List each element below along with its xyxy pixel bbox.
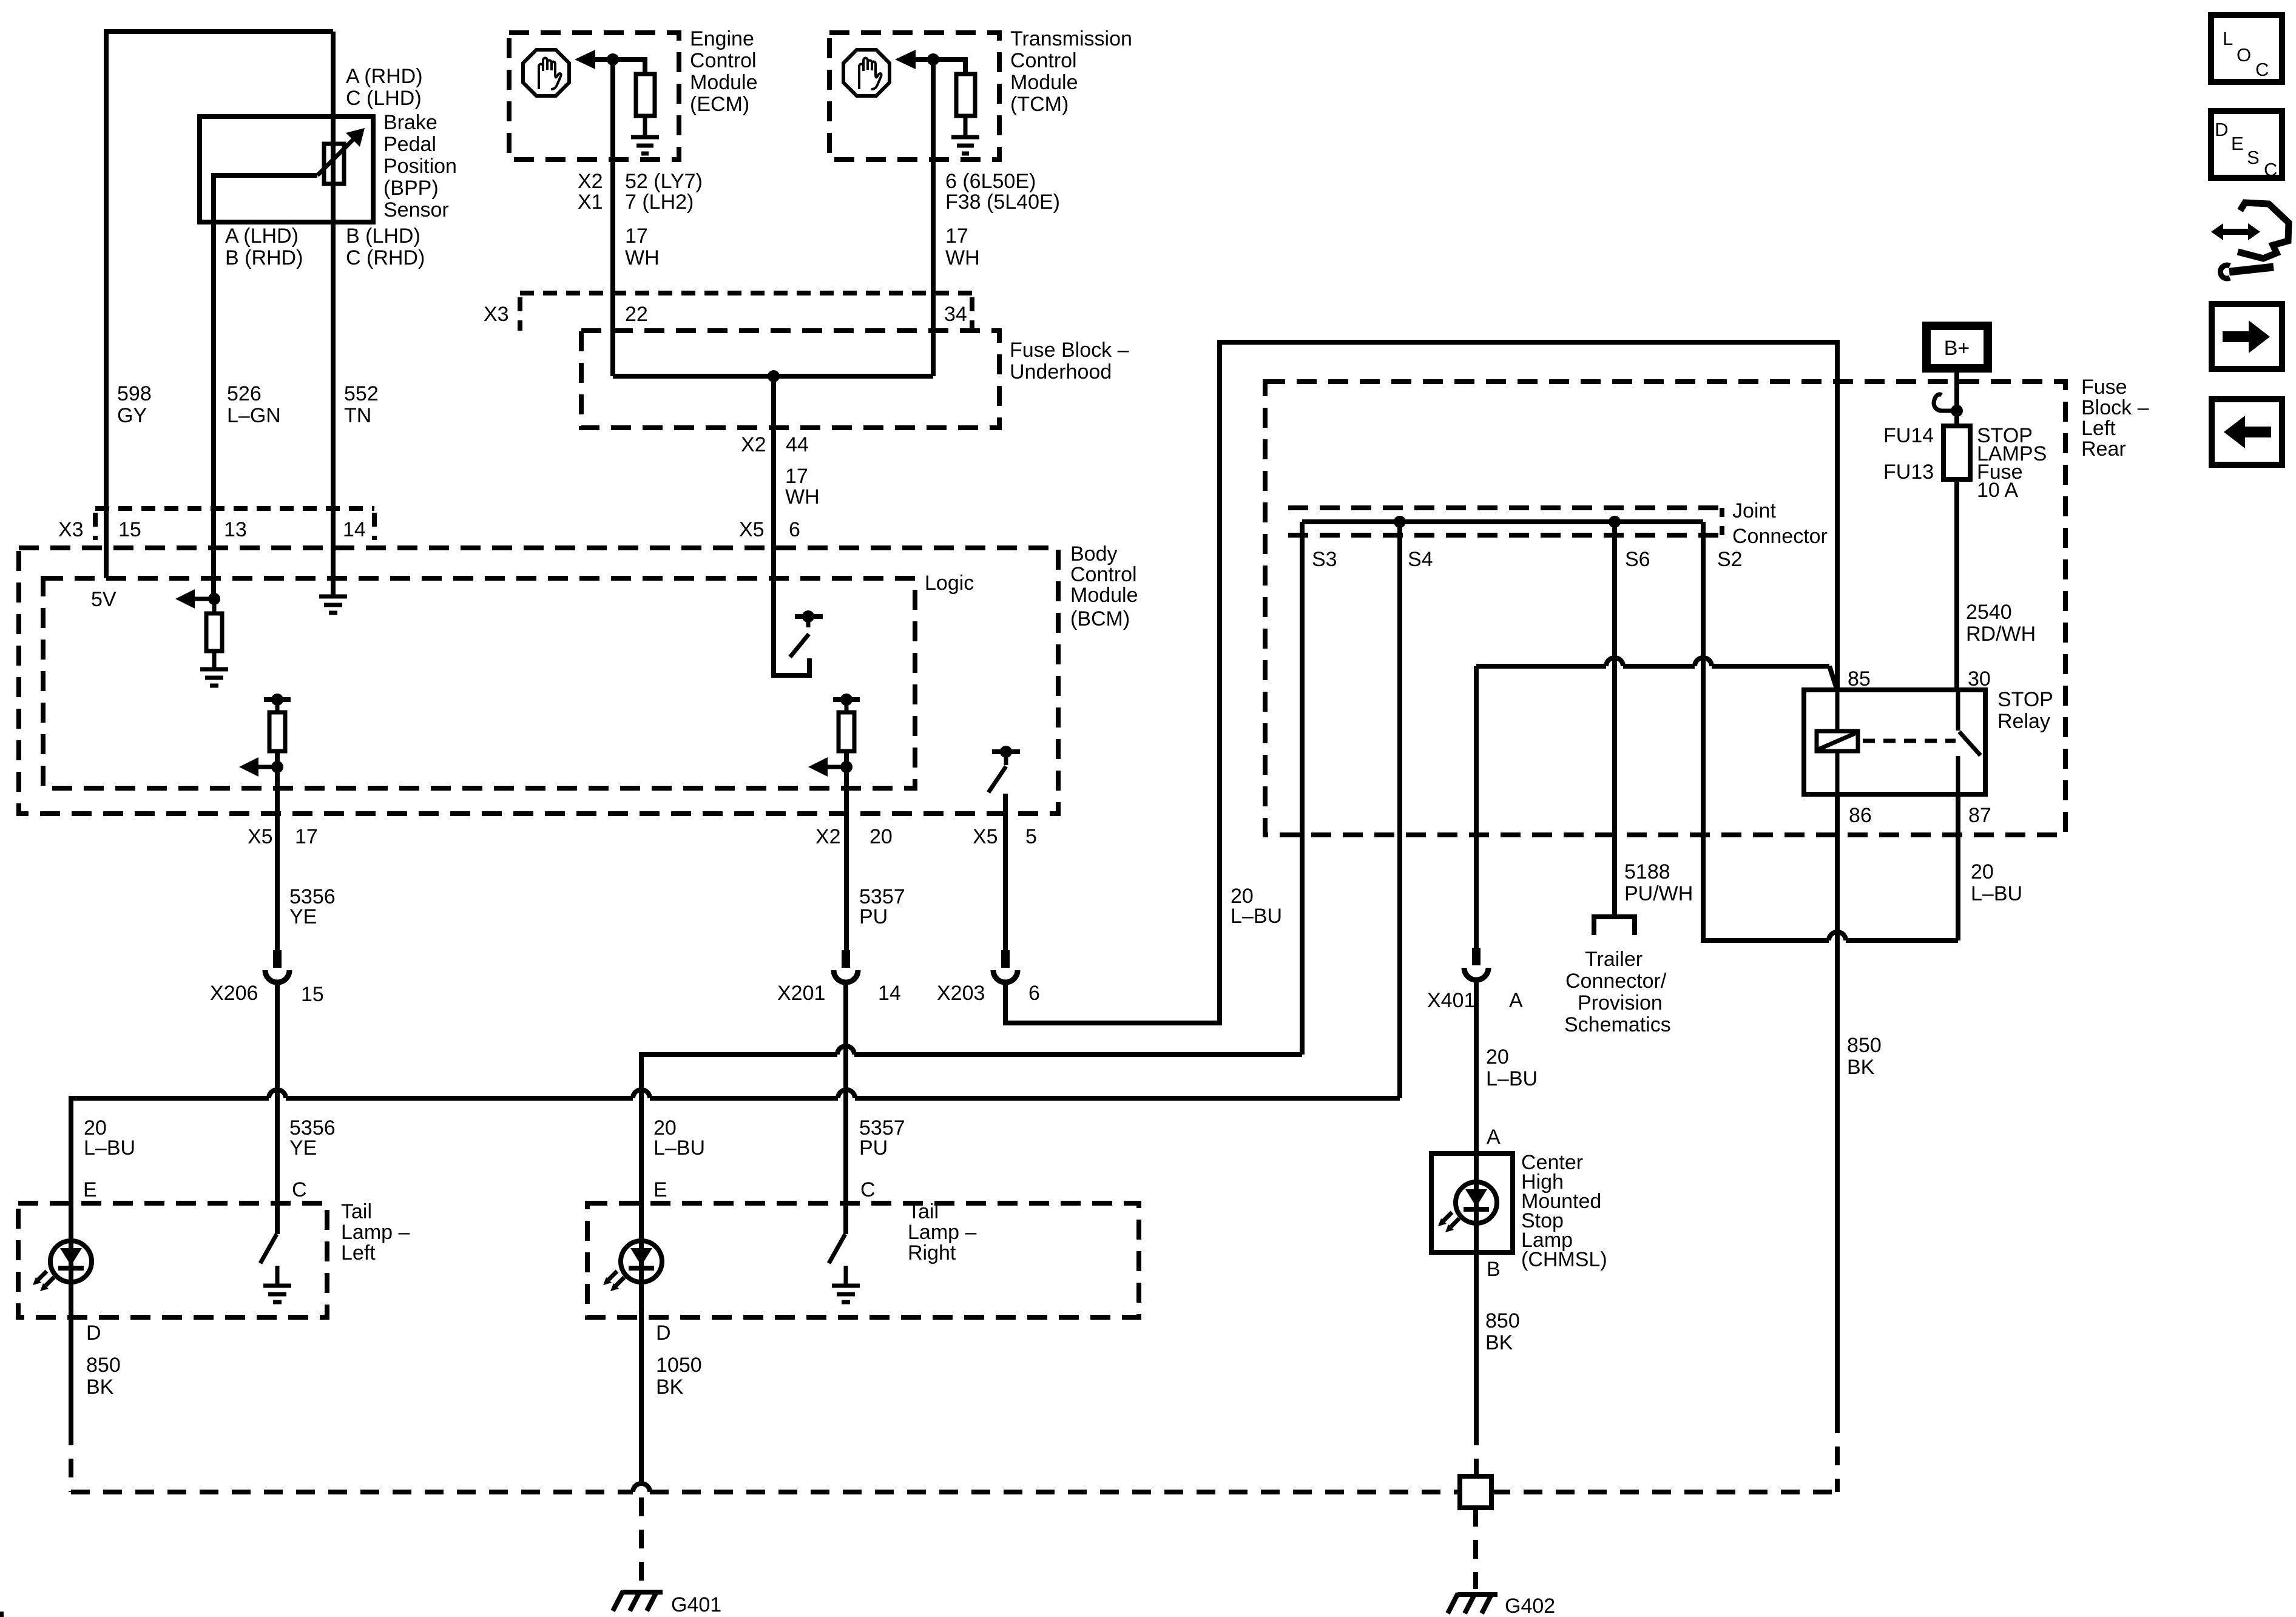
svg-text:FU14: FU14 xyxy=(1883,424,1934,447)
svg-text:Relay: Relay xyxy=(1997,710,2050,733)
fuse STOP LAMPS 10A xyxy=(1943,426,1970,479)
wire left lamp driver output xyxy=(275,751,280,954)
node left driver arrow xyxy=(271,761,283,773)
svg-text:7 (LH2): 7 (LH2) xyxy=(625,191,694,214)
resistor right lamp driver xyxy=(839,712,854,751)
wire fuse to relay 30 xyxy=(1954,479,1959,690)
svg-text:552: 552 xyxy=(344,382,379,405)
wire BPP 5V feed loop xyxy=(106,32,333,578)
svg-text:C (RHD): C (RHD) xyxy=(346,246,425,269)
splice square xyxy=(1460,1476,1491,1508)
svg-text:C: C xyxy=(292,1178,307,1201)
wire joining ECM and TCM outputs xyxy=(613,374,933,379)
ground G401 xyxy=(623,1590,663,1595)
engine control module box xyxy=(509,33,679,160)
svg-text:Left: Left xyxy=(2081,417,2116,440)
logic inner box xyxy=(43,578,915,788)
svg-text:A: A xyxy=(1509,989,1523,1012)
svg-text:52 (LY7): 52 (LY7) xyxy=(625,170,703,193)
svg-text:Provision: Provision xyxy=(1578,991,1663,1014)
svg-text:L–BU: L–BU xyxy=(1971,882,2022,905)
node underhood junction xyxy=(768,370,780,382)
arrow to hand ECM xyxy=(575,50,595,69)
switch BCM relay driver X5-5 xyxy=(992,749,1020,754)
svg-text:87: 87 xyxy=(1968,804,1991,827)
connector X3 underhood band xyxy=(520,291,972,295)
svg-text:D: D xyxy=(86,1322,101,1345)
icon DESC box xyxy=(2211,111,2282,178)
wire TCM output xyxy=(931,59,936,376)
relay internal dashed link xyxy=(1863,739,1956,743)
svg-text:Position: Position xyxy=(383,155,457,178)
svg-text:Underhood: Underhood xyxy=(1010,360,1112,383)
driver output left lamp: T-bar xyxy=(264,697,291,702)
switch BCM brake input xyxy=(795,614,823,619)
svg-text:S4: S4 xyxy=(1408,548,1433,571)
relay coil xyxy=(1835,690,1840,731)
svg-text:X206: X206 xyxy=(210,982,258,1005)
svg-text:PU/WH: PU/WH xyxy=(1624,882,1693,905)
node fuse junction xyxy=(1951,405,1963,417)
wire relay 86 dashed to bus xyxy=(1835,1414,1840,1492)
svg-text:C: C xyxy=(2255,59,2269,80)
svg-text:Module: Module xyxy=(1010,71,1078,94)
wire BPP signal 552 TN xyxy=(331,32,336,596)
svg-text:14: 14 xyxy=(343,518,366,541)
fuse block underhood box xyxy=(581,331,999,428)
wire BCM feed xyxy=(774,376,809,675)
driver output right lamp: T-bar xyxy=(833,697,860,702)
potentiometer body xyxy=(324,144,344,184)
brake pedal position sensor box xyxy=(200,116,373,222)
svg-text:B: B xyxy=(1487,1258,1501,1281)
svg-text:S2: S2 xyxy=(1717,548,1743,571)
wire S6 branch trailer xyxy=(1612,522,1617,916)
svg-text:X1: X1 xyxy=(578,191,603,214)
svg-text:S6: S6 xyxy=(1625,548,1650,571)
svg-text:C (LHD): C (LHD) xyxy=(346,87,422,110)
dashed ground bus left xyxy=(71,1490,1460,1494)
svg-text:598: 598 xyxy=(117,382,152,405)
svg-text:X3: X3 xyxy=(484,303,509,326)
resistor brake signal pull-down xyxy=(206,613,222,651)
resistor ECM pull-up xyxy=(636,74,655,116)
svg-text:Control: Control xyxy=(1070,563,1137,586)
connector X206 xyxy=(273,950,282,968)
svg-text:X2: X2 xyxy=(741,433,766,456)
svg-text:526: 526 xyxy=(227,382,262,405)
svg-text:Engine: Engine xyxy=(690,27,754,50)
svg-text:Right: Right xyxy=(908,1241,956,1264)
wire X401 feed xyxy=(1474,666,1479,950)
svg-text:A (RHD): A (RHD) xyxy=(346,65,423,88)
wire lamp right ground to G401 xyxy=(639,1282,644,1485)
svg-text:X2: X2 xyxy=(578,170,603,193)
svg-text:Fuse: Fuse xyxy=(2081,376,2127,399)
svg-text:BK: BK xyxy=(656,1376,684,1399)
bulb tail lamp right xyxy=(621,1241,662,1282)
svg-text:WH: WH xyxy=(945,246,980,269)
connector X203 xyxy=(1001,950,1010,968)
connector X401 xyxy=(1472,948,1481,965)
svg-text:(TCM): (TCM) xyxy=(1010,93,1069,116)
relay switch blade xyxy=(1956,690,1960,731)
svg-text:6: 6 xyxy=(789,518,800,541)
svg-text:17: 17 xyxy=(945,224,968,248)
svg-text:15: 15 xyxy=(118,518,141,541)
svg-text:L: L xyxy=(2223,28,2233,49)
icon previous page arrow xyxy=(2212,399,2282,465)
svg-text:S3: S3 xyxy=(1312,548,1337,571)
svg-text:85: 85 xyxy=(1848,667,1871,690)
svg-text:6 (6L50E): 6 (6L50E) xyxy=(945,170,1036,193)
wire right lamp driver output xyxy=(844,751,849,954)
svg-text:13: 13 xyxy=(224,518,247,541)
ground brake signal xyxy=(200,669,228,686)
svg-text:L–BU: L–BU xyxy=(1231,905,1282,928)
wire relay 87 output xyxy=(1956,794,1960,940)
svg-text:Schematics: Schematics xyxy=(1564,1013,1671,1036)
B+ battery feed box xyxy=(1926,326,1988,368)
svg-text:Control: Control xyxy=(1010,49,1077,72)
svg-text:850: 850 xyxy=(86,1354,121,1377)
svg-text:L–BU: L–BU xyxy=(84,1136,135,1160)
wire ECM output xyxy=(610,59,615,376)
svg-text:5: 5 xyxy=(1025,825,1037,848)
svg-text:20: 20 xyxy=(1486,1045,1509,1068)
svg-text:Tail: Tail xyxy=(341,1200,372,1223)
stop relay box xyxy=(1804,690,1985,794)
resistor TCM pull-up xyxy=(956,74,975,116)
wire lamp left ground xyxy=(69,1282,73,1426)
svg-text:(BCM): (BCM) xyxy=(1070,607,1130,630)
fusible element hook xyxy=(1934,394,1957,411)
svg-text:(BPP): (BPP) xyxy=(383,177,439,200)
svg-text:Block –: Block – xyxy=(2081,396,2149,419)
svg-text:Rear: Rear xyxy=(2081,437,2126,461)
switch tail lamp left xyxy=(260,1234,277,1263)
ground ECM internal xyxy=(631,137,659,154)
svg-text:Connector/: Connector/ xyxy=(1565,970,1667,993)
arrow to hand TCM xyxy=(895,50,916,69)
svg-text:Body: Body xyxy=(1070,542,1118,565)
dashed ground bus right xyxy=(1491,1490,1837,1494)
svg-text:X3: X3 xyxy=(58,518,84,541)
page corner speck xyxy=(0,1612,4,1617)
svg-text:L–GN: L–GN xyxy=(227,404,281,427)
svg-text:Trailer: Trailer xyxy=(1585,948,1643,971)
svg-text:STOP: STOP xyxy=(1997,688,2053,711)
wire S4 branch xyxy=(1397,522,1402,1098)
ground sensor return xyxy=(319,596,347,613)
bulb tail lamp left xyxy=(50,1241,92,1282)
svg-text:44: 44 xyxy=(786,433,809,456)
svg-text:(ECM): (ECM) xyxy=(690,93,749,116)
node S4 xyxy=(1394,516,1406,528)
svg-text:GY: GY xyxy=(117,404,147,427)
icon LOC box xyxy=(2211,15,2282,82)
wire relay 86 ground xyxy=(1835,794,1840,1414)
trailer connector symbol xyxy=(1594,917,1635,935)
icon schematic reference (car with wrench) xyxy=(2211,203,2289,279)
hop of S2 wire over 86 wire xyxy=(1829,932,1846,940)
svg-text:Module: Module xyxy=(690,71,758,94)
wire tail lamp right feed S3 xyxy=(641,1055,1302,1485)
body control module outer box xyxy=(19,548,1058,814)
svg-text:Control: Control xyxy=(690,49,757,72)
svg-text:A: A xyxy=(1487,1126,1501,1149)
svg-text:YE: YE xyxy=(289,905,317,928)
bulb CHMSL xyxy=(1456,1182,1497,1223)
svg-text:Transmission: Transmission xyxy=(1010,27,1132,50)
svg-text:O: O xyxy=(2237,44,2251,66)
svg-text:WH: WH xyxy=(785,485,820,508)
wire tail lamp left feed S4 xyxy=(71,1098,1400,1426)
svg-text:15: 15 xyxy=(301,983,324,1006)
svg-text:Joint: Joint xyxy=(1732,499,1776,522)
svg-text:34: 34 xyxy=(944,303,967,326)
svg-text:14: 14 xyxy=(878,982,901,1005)
svg-text:5V: 5V xyxy=(91,588,116,611)
svg-text:86: 86 xyxy=(1849,804,1872,827)
svg-text:Sensor: Sensor xyxy=(383,198,449,221)
svg-text:D: D xyxy=(2215,119,2228,140)
svg-text:X203: X203 xyxy=(937,982,985,1005)
svg-text:17: 17 xyxy=(295,825,318,848)
tail lamp right box xyxy=(587,1203,1139,1317)
svg-text:D: D xyxy=(656,1322,671,1345)
svg-text:X401: X401 xyxy=(1427,989,1475,1012)
svg-text:C: C xyxy=(860,1178,876,1201)
resistor left lamp driver xyxy=(269,712,285,751)
wire S3 branch xyxy=(1300,522,1305,1055)
svg-text:L–BU: L–BU xyxy=(1486,1067,1538,1090)
svg-text:X5: X5 xyxy=(739,518,765,541)
svg-text:Tail: Tail xyxy=(908,1200,939,1223)
svg-text:Connector: Connector xyxy=(1732,525,1828,548)
svg-text:Fuse Block –: Fuse Block – xyxy=(1010,339,1129,362)
svg-text:L–BU: L–BU xyxy=(653,1136,705,1160)
svg-text:G401: G401 xyxy=(671,1593,721,1616)
svg-text:X5: X5 xyxy=(973,825,998,848)
svg-text:6: 6 xyxy=(1028,982,1040,1005)
ground tail lamp left xyxy=(263,1266,291,1302)
svg-text:BK: BK xyxy=(86,1376,114,1399)
svg-text:B+: B+ xyxy=(1944,337,1970,360)
svg-text:E: E xyxy=(2231,133,2244,154)
wire relay driver output xyxy=(1003,794,1008,954)
node S6 xyxy=(1609,516,1621,528)
connector X3 BCM band xyxy=(95,506,374,511)
svg-text:C: C xyxy=(2264,159,2277,180)
svg-text:X5: X5 xyxy=(248,825,273,848)
svg-text:22: 22 xyxy=(625,303,648,326)
svg-text:Lamp –: Lamp – xyxy=(341,1221,410,1244)
node TCM junction xyxy=(927,53,939,66)
wire B+ to fuse xyxy=(1954,373,1959,426)
wire chmsl ground dashed xyxy=(1474,1426,1479,1476)
svg-text:Module: Module xyxy=(1070,584,1138,607)
transmission control module box xyxy=(829,33,999,160)
tail lamp left box xyxy=(18,1203,327,1317)
wire joint connector bus xyxy=(1302,519,1703,524)
svg-text:850: 850 xyxy=(1485,1309,1520,1332)
ground tail lamp right xyxy=(832,1266,860,1302)
svg-text:Pedal: Pedal xyxy=(383,133,436,156)
svg-text:2540: 2540 xyxy=(1966,601,2012,624)
svg-text:RD/WH: RD/WH xyxy=(1966,623,2036,646)
svg-text:E: E xyxy=(83,1178,97,1201)
stop hand octagon TCM xyxy=(843,50,890,96)
wire X203 to relay 85 xyxy=(1005,342,1837,1023)
wire CHMSL feed from relay coil node xyxy=(1829,666,1837,690)
svg-text:17: 17 xyxy=(625,224,648,248)
svg-text:F38 (5L40E): F38 (5L40E) xyxy=(945,191,1060,214)
potentiometer arrow xyxy=(317,139,354,175)
svg-text:TN: TN xyxy=(344,404,371,427)
svg-text:S: S xyxy=(2247,147,2260,168)
svg-text:30: 30 xyxy=(1968,667,1991,690)
svg-text:20: 20 xyxy=(869,825,893,848)
svg-text:Left: Left xyxy=(341,1241,376,1264)
connector X201 xyxy=(842,950,850,968)
svg-text:FU13: FU13 xyxy=(1883,461,1934,484)
svg-text:YE: YE xyxy=(289,1136,317,1160)
svg-text:B (RHD): B (RHD) xyxy=(225,246,303,269)
svg-text:17: 17 xyxy=(785,465,808,488)
hop of bus over G401 wire xyxy=(633,1484,650,1492)
svg-text:10 A: 10 A xyxy=(1977,479,2018,502)
svg-text:B (LHD): B (LHD) xyxy=(346,224,420,248)
svg-text:WH: WH xyxy=(625,246,660,269)
ground TCM internal xyxy=(951,137,979,154)
svg-text:Brake: Brake xyxy=(383,111,437,134)
wire splice to G402 dashed xyxy=(1473,1508,1478,1589)
stop hand octagon ECM xyxy=(523,50,569,96)
node right driver arrow xyxy=(840,761,853,773)
svg-text:BK: BK xyxy=(1485,1331,1513,1354)
node brake signal junction xyxy=(208,593,220,605)
svg-text:X201: X201 xyxy=(777,982,825,1005)
wire S2 branch xyxy=(1703,522,1958,940)
svg-text:PU: PU xyxy=(859,905,888,928)
icon next page arrow xyxy=(2212,304,2282,369)
svg-text:Lamp –: Lamp – xyxy=(908,1221,976,1244)
potentiometer wiper wire 526 L-GN xyxy=(214,175,317,599)
arrow brake signal xyxy=(194,597,214,601)
svg-text:Logic: Logic xyxy=(925,572,974,595)
svg-text:(CHMSL): (CHMSL) xyxy=(1521,1248,1607,1271)
svg-text:5188: 5188 xyxy=(1624,860,1670,883)
svg-text:PU: PU xyxy=(859,1136,888,1160)
svg-text:BK: BK xyxy=(1847,1056,1875,1079)
ground G402 xyxy=(1457,1592,1497,1597)
svg-text:1050: 1050 xyxy=(656,1354,702,1377)
center high mounted stop lamp box xyxy=(1431,1153,1513,1252)
svg-text:850: 850 xyxy=(1847,1034,1882,1057)
node ECM junction xyxy=(607,53,619,66)
svg-text:A (LHD): A (LHD) xyxy=(225,224,299,248)
svg-text:E: E xyxy=(653,1178,667,1201)
joint connector band xyxy=(1288,505,1722,510)
switch tail lamp right xyxy=(829,1234,845,1263)
svg-text:X2: X2 xyxy=(815,825,841,848)
svg-text:G402: G402 xyxy=(1505,1595,1555,1617)
fuse block left rear box xyxy=(1265,382,2065,835)
svg-text:20: 20 xyxy=(1971,860,1994,883)
